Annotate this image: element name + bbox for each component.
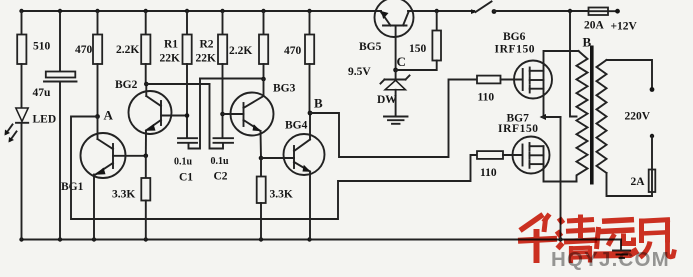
wire BG1 base to BG2 emitter node: [113, 155, 146, 157]
svg-text:IRF150: IRF150: [495, 44, 536, 56]
svg-text:C: C: [397, 54, 406, 69]
svg-text:470: 470: [75, 44, 93, 56]
svg-text:220V: 220V: [625, 111, 651, 123]
fuse 20A: [584, 8, 618, 32]
svg-text:110: 110: [478, 92, 495, 104]
svg-text:B: B: [314, 96, 323, 111]
svg-text:LED: LED: [33, 114, 57, 126]
svg-text:2A: 2A: [631, 176, 646, 188]
node 220V upper terminal: [650, 87, 655, 92]
node BG3 collector junction: [261, 77, 266, 82]
capacitor 47u electrolytic: [33, 11, 77, 240]
svg-text:DW: DW: [377, 94, 397, 106]
watermark yuan: [594, 220, 638, 255]
node A: [95, 108, 113, 123]
svg-text:R2: R2: [200, 39, 214, 51]
resistor 3.3K (second): [257, 158, 293, 240]
svg-text:BG5: BG5: [359, 41, 382, 53]
svg-text:150: 150: [409, 43, 427, 55]
wire C2 bottom to BG2 collector (L1): [146, 83, 209, 85]
wire top supply rail left segment: [22, 10, 382, 12]
transformer T1 secondary winding: [597, 60, 607, 173]
svg-text:B: B: [583, 35, 592, 50]
svg-text:22K: 22K: [160, 53, 181, 65]
svg-text:IRF150: IRF150: [498, 123, 539, 135]
svg-text:20A: 20A: [584, 20, 605, 32]
watermark jian: [640, 219, 675, 258]
mosfet BG6 IRF150: [495, 31, 553, 99]
node B: [308, 96, 323, 116]
node BG1 base / BG2 emitter / 3.3K junction: [144, 154, 149, 159]
svg-text:A: A: [104, 108, 114, 123]
wire BG6 source to common source line: [540, 114, 561, 120]
node BG3 emitter / BG4 base / 3.3K junction: [259, 156, 264, 161]
svg-text:3.3K: 3.3K: [112, 189, 135, 201]
resistor R1 22K: [160, 11, 192, 138]
node 220V lower terminal: [650, 134, 654, 138]
resistor 470 (first): [75, 11, 102, 117]
wire node A to inner ground-side feedback run: [71, 117, 477, 220]
resistor R2 22K: [196, 11, 228, 138]
svg-text:R1: R1: [164, 39, 178, 51]
junction dots on top rail: [19, 9, 572, 13]
resistor 110 (BG6 gate): [477, 76, 522, 104]
svg-text:BG3: BG3: [273, 83, 296, 95]
svg-text:2.2K: 2.2K: [229, 45, 252, 57]
ground (bottom right): [613, 240, 630, 259]
node BG2 collector junction: [144, 82, 149, 87]
svg-text:22K: 22K: [196, 53, 217, 65]
svg-text:0.1u: 0.1u: [211, 156, 230, 167]
resistor 510: [17, 11, 50, 108]
transistor BG5: [359, 0, 414, 70]
node +12V terminal: [611, 9, 638, 33]
transformer T1 primary winding: [577, 51, 588, 182]
svg-text:BG1: BG1: [61, 181, 84, 193]
wire node B to BG6 gate run: [310, 80, 477, 158]
wire BG6 drain to transformer primary top: [544, 51, 579, 117]
watermark hua: [518, 214, 557, 263]
svg-text:BG4: BG4: [285, 120, 308, 132]
wire common source line to ground rail: [560, 117, 562, 240]
svg-text:3.3K: 3.3K: [270, 189, 293, 201]
wire bottom ground rail: [22, 239, 622, 241]
capacitor C2 0.1u: [210, 84, 234, 183]
resistor 3.3K (first): [112, 156, 150, 240]
wire top supply rail right segment (BG5 to switch): [408, 10, 474, 12]
svg-text:9.5V: 9.5V: [348, 66, 371, 78]
svg-text:+12V: +12V: [611, 21, 638, 33]
transformer T1 core: [590, 46, 594, 185]
wire secondary bottom to fuse: [607, 173, 653, 196]
wire BG7 drain to transformer primary bottom: [544, 146, 577, 181]
transistor BG3: [223, 79, 296, 158]
svg-text:110: 110: [480, 167, 497, 179]
resistor 150: [396, 11, 441, 70]
svg-text:510: 510: [33, 41, 51, 53]
wire C1 bottom to BG3 collector (L2): [200, 78, 264, 80]
LED D1: [5, 108, 57, 240]
resistor 2.2K (second): [229, 11, 268, 79]
ground (zener): [384, 117, 408, 124]
svg-text:BG2: BG2: [115, 79, 138, 91]
watermark qing: [557, 215, 597, 264]
svg-text:0.1u: 0.1u: [174, 157, 193, 168]
resistor 470 (second): [284, 11, 314, 113]
transistor BG4: [261, 113, 325, 240]
resistor 110 (BG7 gate): [477, 151, 521, 179]
svg-text:C2: C2: [214, 171, 228, 183]
node BG3 base junction: [220, 112, 225, 117]
svg-text:47u: 47u: [33, 87, 52, 99]
mosfet BG7 IRF150: [498, 113, 550, 174]
wire secondary top to 220V terminal: [607, 60, 653, 89]
svg-text:2.2K: 2.2K: [116, 44, 139, 56]
wire +12V center tap drop: [570, 11, 577, 117]
transistor BG2: [115, 79, 187, 156]
fuse 2A: [631, 136, 656, 196]
junction dots on bottom rail: [19, 237, 562, 241]
transistor BG1: [61, 117, 126, 240]
capacitor C1 0.1u: [174, 79, 200, 184]
svg-text:BG6: BG6: [503, 31, 526, 43]
resistor 2.2K (first): [116, 11, 150, 84]
node BG2 base junction: [185, 113, 190, 118]
switch S (on/off): [471, 2, 589, 15]
zener diode DW 9.5V: [348, 66, 410, 117]
svg-text:470: 470: [284, 45, 302, 57]
svg-text:C1: C1: [179, 172, 193, 184]
node C: [393, 54, 406, 72]
